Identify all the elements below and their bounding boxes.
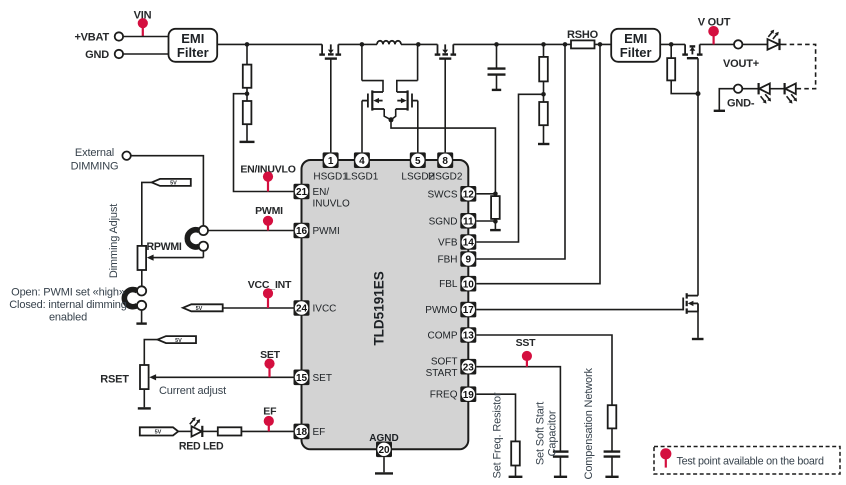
svg-text:16: 16 <box>296 226 308 237</box>
terminal External DIMMING <box>71 147 131 172</box>
jumper J2 bottom circle <box>137 301 146 310</box>
svg-text:GND: GND <box>85 49 109 61</box>
transistor Q5 (output PMOS with body diode) <box>682 44 702 58</box>
wire pin 9 FBH to rail <box>476 44 565 259</box>
resistor R5 (Q5 gate pull-up) <box>667 42 698 93</box>
pin 9 <box>460 251 476 267</box>
svg-text:9: 9 <box>466 255 472 266</box>
LED D5 RED LED <box>179 417 224 452</box>
svg-text:EMI: EMI <box>181 31 204 46</box>
ground below RSET <box>138 407 151 409</box>
pin name labels left <box>313 187 350 438</box>
svg-text:RPWMI: RPWMI <box>147 241 182 253</box>
wire Q3 gate to pin 4 <box>361 101 363 153</box>
EMI Filter output block <box>611 29 660 62</box>
wire jumper J1 bottom to RPWMI wiper <box>202 251 204 258</box>
svg-text:TLD5191ES: TLD5191ES <box>371 271 386 345</box>
svg-text:External: External <box>75 147 114 159</box>
svg-text:INUVLO: INUVLO <box>313 199 350 210</box>
resistor Rcomp (compensation) <box>608 405 617 428</box>
capacitor Ccomp (compensation) <box>604 452 621 477</box>
node EN divider junction <box>245 88 250 101</box>
ground tick below R2 <box>240 141 255 143</box>
supply flag 5V (EF pull-up) <box>140 427 178 435</box>
pin 4 <box>354 152 370 168</box>
terminal +VBAT <box>74 32 123 44</box>
node Q5 gate / R5 junction <box>696 91 701 96</box>
wire rail Q2 to RSHO <box>453 43 571 45</box>
wire pin 14 VFB to divider junction <box>476 94 543 242</box>
svg-text:10: 10 <box>463 279 475 290</box>
label Set Soft Start Capacitor (rotated) <box>535 402 559 465</box>
LED D4 (bottom string right LED) <box>785 83 798 104</box>
wire pin 13 COMP to compensation network <box>476 335 612 405</box>
test point EN/INUVLO <box>240 163 295 191</box>
LED D3 (bottom string left LED) <box>759 83 772 104</box>
svg-text:21: 21 <box>296 187 308 198</box>
transistor Q3 (center back-to-back MOSFET left) <box>362 44 391 119</box>
wire between bottom LEDs <box>770 88 785 90</box>
note text open/closed dimming <box>9 286 126 323</box>
svg-text:Set Freq. Resistor: Set Freq. Resistor <box>492 392 504 478</box>
resistor R1 (EN divider top) <box>243 44 252 87</box>
svg-text:4: 4 <box>359 156 365 167</box>
svg-text:RSHO: RSHO <box>567 29 599 41</box>
wire GND to EMI filter <box>123 53 168 55</box>
svg-text:PWMI: PWMI <box>313 226 340 237</box>
svg-text:5V: 5V <box>170 181 177 187</box>
svg-text:1: 1 <box>328 156 334 167</box>
svg-text:SWCS: SWCS <box>428 189 458 200</box>
wire Q2 gate to pin 8 <box>444 59 446 153</box>
test point VIN <box>134 10 152 37</box>
svg-text:24: 24 <box>296 304 308 315</box>
svg-text:Filter: Filter <box>620 45 652 60</box>
pin 20 <box>376 442 392 458</box>
node rail at R1 tap <box>245 42 250 47</box>
svg-text:Current adjust: Current adjust <box>159 385 226 397</box>
supply flag 5V (VCC_INT) <box>183 304 223 312</box>
svg-text:Capacitor: Capacitor <box>547 410 559 456</box>
pin 24 <box>294 300 310 316</box>
svg-text:14: 14 <box>463 238 475 249</box>
pin 13 <box>460 327 476 343</box>
wire pin 10 FBL to rail <box>476 44 600 283</box>
resistor R2 (EN divider bottom) <box>243 101 252 141</box>
svg-text:LSGD1: LSGD1 <box>346 172 379 183</box>
ground below sense resistor <box>490 221 501 230</box>
svg-text:HSGD2: HSGD2 <box>428 172 463 183</box>
svg-text:19: 19 <box>463 390 475 401</box>
test point PWMI <box>255 205 283 231</box>
inductor L1 <box>377 41 401 45</box>
supply flag 5V (RPWMI pull-up) <box>152 179 191 187</box>
svg-text:EN/: EN/ <box>313 187 330 198</box>
pin 11 <box>460 213 476 229</box>
wire input rail EMI filter to Q1 <box>217 43 322 45</box>
jumper J2 shunt arc <box>124 290 137 307</box>
pin 12 <box>460 186 476 202</box>
wire rail Q5 to VOUT terminal <box>700 43 734 45</box>
transistor Q4 (center back-to-back MOSFET right) <box>391 44 418 119</box>
svg-text:EMI: EMI <box>624 31 647 46</box>
node switch node right <box>416 42 421 47</box>
test point SST <box>516 337 537 367</box>
wire EN divider to pin 21 <box>234 94 294 192</box>
wire pin 23 SOFT START to capacitor <box>476 367 560 451</box>
node switch node left <box>360 42 365 47</box>
wire Q1 gate to pin 1 <box>330 59 332 153</box>
svg-text:EF: EF <box>263 405 277 417</box>
node VFB divider junction <box>541 81 546 102</box>
capacitor Css (soft start) <box>553 452 569 477</box>
svg-text:5V: 5V <box>155 430 162 436</box>
wire common source to SWCS sense <box>391 120 495 194</box>
terminal GND <box>85 49 123 61</box>
wire 5V flag to RED LED <box>178 430 191 432</box>
wire AGND pin to ground <box>383 457 385 472</box>
pin name labels right <box>425 189 458 400</box>
svg-text:SST: SST <box>516 337 537 349</box>
svg-text:EF: EF <box>313 427 326 438</box>
svg-text:20: 20 <box>378 445 390 456</box>
pin 5 <box>410 152 426 168</box>
wire VOUT+ to LED D2 <box>742 43 767 45</box>
LED D2 (top string LED) <box>768 30 780 50</box>
wire Q4 gate to pin 5 <box>417 101 419 153</box>
pin 16 <box>294 223 310 239</box>
wire LED D3 to GND- terminal <box>742 88 758 90</box>
wire resistor R6 to pin 18 EF <box>241 430 293 432</box>
pin name labels top <box>313 172 462 183</box>
test point SET <box>260 349 281 377</box>
svg-text:VFB: VFB <box>438 238 458 249</box>
ground GND- return <box>714 110 725 112</box>
svg-text:RSET: RSET <box>100 373 129 385</box>
wire 5V flag to RSET <box>144 340 157 365</box>
pin 14 <box>460 234 476 250</box>
svg-text:15: 15 <box>296 373 308 384</box>
pin 1 <box>323 152 339 168</box>
transistor Q6 (PWMO NMOS) <box>683 293 703 339</box>
svg-text:IVCC: IVCC <box>313 304 337 315</box>
node rail FBH tap <box>563 42 568 47</box>
svg-text:Set Soft Start: Set Soft Start <box>535 402 547 465</box>
jumper J1 shunt arc <box>187 230 199 247</box>
test point VCC_INT <box>248 279 292 308</box>
svg-text:12: 12 <box>463 189 475 200</box>
pin 17 <box>460 302 476 318</box>
svg-text:DIMMING: DIMMING <box>71 161 119 173</box>
svg-text:SGND: SGND <box>429 216 458 227</box>
EMI Filter input block <box>169 29 218 62</box>
svg-text:17: 17 <box>463 305 475 316</box>
svg-text:23: 23 <box>463 362 475 373</box>
node SWCS sense top <box>493 192 498 197</box>
wire 5V flag to pin 24 IVCC <box>223 307 294 309</box>
wire GND- to ground <box>719 89 734 110</box>
pin 15 <box>294 370 310 386</box>
test point EF <box>263 405 277 431</box>
ground AGND <box>375 472 393 474</box>
wire LED to resistor R6 <box>202 430 218 432</box>
wire Q5 gate to Q6 drain <box>697 58 699 295</box>
svg-text:18: 18 <box>296 427 308 438</box>
wire RSHO to EMI filter 2 <box>595 43 612 45</box>
resistor Rfreq (set frequency) <box>509 441 523 476</box>
node SGND sense bottom <box>493 219 498 224</box>
wire RSET to ground <box>143 389 145 407</box>
svg-text:11: 11 <box>463 216 474 227</box>
pin 8 <box>437 152 453 168</box>
wire jumper J1 to pin 16 <box>208 230 294 232</box>
wire pin 12 SWCS to sense resistor <box>476 193 495 195</box>
wire Rcomp to Ccomp <box>611 428 613 451</box>
svg-text:SET: SET <box>313 373 332 384</box>
legend box <box>654 447 840 475</box>
pin 19 <box>460 386 476 402</box>
potentiometer RPWMI <box>138 241 204 270</box>
wire +VBAT to EMI filter <box>123 36 168 38</box>
wire pin 17 PWMO to Q6 gate <box>476 309 683 311</box>
svg-text:+VBAT: +VBAT <box>74 32 109 44</box>
wire dashed LED string return <box>780 44 816 88</box>
jumper J1 top circle <box>199 226 208 235</box>
svg-text:RED LED: RED LED <box>179 440 224 452</box>
svg-text:START: START <box>426 368 458 379</box>
svg-text:GND-: GND- <box>727 98 755 110</box>
pin 10 <box>460 276 476 292</box>
svg-text:5V: 5V <box>175 338 182 344</box>
ground below jumper J2 <box>136 322 146 324</box>
potentiometer RSET <box>100 365 156 389</box>
terminal GND- <box>727 85 755 110</box>
supply flag 5V (RSET) <box>158 336 196 344</box>
svg-text:Filter: Filter <box>177 45 209 60</box>
resistor R7 (current sense) <box>491 196 500 219</box>
wire 5V flag to RPWMI <box>142 182 152 246</box>
wire RSET wiper to pin 15 SET <box>156 376 294 378</box>
node rail FBL tap <box>598 42 603 47</box>
svg-text:Open: PWMI set «high»: Open: PWMI set «high» <box>11 286 125 298</box>
wire jumper J2 to ground <box>141 310 143 323</box>
svg-text:Compensation Network: Compensation Network <box>583 367 595 479</box>
transistor Q2 (second high-side MOSFET with body diode) <box>435 44 456 58</box>
svg-text:COMP: COMP <box>428 331 458 342</box>
svg-text:FBH: FBH <box>438 255 458 266</box>
svg-text:Dimming Adjust: Dimming Adjust <box>108 204 120 278</box>
jumper J2 top circle <box>137 286 146 295</box>
terminal VOUT+ <box>723 40 759 70</box>
wire EMI filter 2 to Q5 <box>660 43 685 45</box>
svg-text:5: 5 <box>415 156 421 167</box>
wire pin 11 SGND to sense resistor <box>476 220 495 222</box>
svg-text:8: 8 <box>442 156 448 167</box>
pin 23 <box>460 359 476 375</box>
wire pin 19 FREQ to resistor <box>476 394 515 441</box>
wire rail Q1 to inductor <box>338 43 377 45</box>
test point V OUT <box>698 16 731 44</box>
wire rail inductor to Q2 <box>401 43 438 45</box>
node Q3/Q4 common source <box>389 117 394 122</box>
wire RPWMI to jumper J2 <box>141 270 143 287</box>
svg-text:PWMI: PWMI <box>255 205 283 217</box>
resistor RSHO <box>567 29 599 48</box>
svg-text:Closed: internal dimming: Closed: internal dimming <box>9 299 126 311</box>
svg-text:PWMO: PWMO <box>425 305 457 316</box>
op-amp U1 TLD5191ES controller IC body <box>302 160 469 449</box>
jumper J1 bottom circle <box>199 242 208 251</box>
resistor R3 (VFB divider top) <box>539 42 548 81</box>
svg-text:Test point available on the bo: Test point available on the board <box>677 455 824 467</box>
resistor R4 (VFB divider bottom) <box>538 102 549 144</box>
svg-text:FREQ: FREQ <box>430 390 458 401</box>
wire External DIMMING to jumper J1 <box>131 156 204 226</box>
svg-text:FBL: FBL <box>439 279 458 290</box>
svg-text:13: 13 <box>463 331 475 342</box>
svg-text:HSGD1: HSGD1 <box>313 172 348 183</box>
capacitor C1 (switch output cap) <box>488 42 506 90</box>
svg-text:VOUT+: VOUT+ <box>723 58 759 70</box>
transistor Q1 (input high-side MOSFET with body diode) <box>319 44 341 58</box>
pin 18 <box>294 424 310 440</box>
resistor R6 (EF series) <box>218 427 242 435</box>
svg-text:enabled: enabled <box>49 311 87 323</box>
svg-text:SOFT: SOFT <box>431 357 458 368</box>
pin 21 <box>294 184 310 200</box>
svg-text:5V: 5V <box>196 306 203 312</box>
